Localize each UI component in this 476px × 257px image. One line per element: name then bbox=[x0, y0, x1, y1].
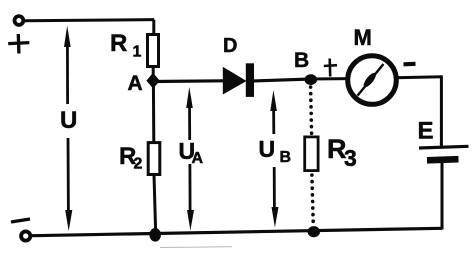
battery E bbox=[419, 146, 469, 160]
label A bbox=[128, 72, 143, 95]
wire top rail bbox=[25, 20, 154, 21]
dotted wire node B to R3 bbox=[311, 87, 312, 134]
svg-text:3: 3 bbox=[344, 145, 357, 171]
minus sign at meter output bbox=[404, 62, 416, 67]
node junction below R2 on bottom rail bbox=[149, 228, 161, 242]
svg-text:U: U bbox=[259, 136, 276, 162]
voltage arrow U bbox=[64, 26, 72, 232]
label D bbox=[223, 35, 237, 57]
svg-text:M: M bbox=[354, 25, 372, 50]
label B bbox=[294, 49, 309, 72]
label UB bbox=[259, 136, 292, 166]
wire R1 top lead bbox=[152, 20, 155, 35]
wire R1 to node A bbox=[152, 67, 155, 82]
minus sign at input terminal bbox=[11, 219, 30, 222]
resistor R3 bbox=[305, 137, 318, 171]
svg-text:B: B bbox=[280, 149, 292, 166]
label R1 bbox=[110, 30, 142, 61]
svg-text:D: D bbox=[223, 35, 237, 57]
wire node A to R2 bbox=[152, 81, 155, 143]
svg-text:B: B bbox=[294, 49, 309, 72]
svg-text:A: A bbox=[192, 150, 204, 167]
svg-text:R: R bbox=[110, 30, 127, 57]
meter M bbox=[348, 56, 397, 105]
svg-text:2: 2 bbox=[134, 156, 143, 173]
wire diode cathode to node B bbox=[252, 79, 311, 81]
wire node B to meter bbox=[310, 77, 349, 80]
label E bbox=[418, 118, 434, 145]
wire meter to right corner bbox=[395, 77, 443, 78]
diode D bbox=[223, 63, 254, 97]
resistor R1 bbox=[148, 35, 159, 67]
plus sign at input terminal bbox=[8, 34, 29, 54]
terminal T2 (negative input) bbox=[21, 231, 30, 240]
wire node A to diode anode bbox=[153, 79, 224, 83]
voltage arrow UA bbox=[186, 87, 194, 231]
faint scan artifact line under bottom rail bbox=[160, 246, 232, 249]
svg-text:U: U bbox=[60, 107, 77, 134]
svg-text:1: 1 bbox=[133, 44, 142, 61]
label R3 bbox=[327, 134, 357, 171]
voltage arrow UB bbox=[270, 90, 278, 228]
wire right rail down to battery bbox=[440, 77, 443, 147]
dotted wire R3 to bottom node bbox=[312, 175, 313, 226]
wire battery to bottom rail bbox=[441, 160, 444, 230]
label R2 bbox=[119, 143, 143, 173]
label M bbox=[354, 25, 372, 50]
node junction below R3 on bottom rail bbox=[308, 226, 320, 237]
label U bbox=[60, 107, 77, 134]
plus sign at meter input bbox=[324, 59, 337, 77]
terminal T1 (positive input) bbox=[15, 16, 24, 25]
label UA bbox=[179, 138, 204, 167]
wire R2 to bottom rail bbox=[154, 175, 156, 235]
svg-text:E: E bbox=[418, 118, 434, 145]
node B junction bbox=[305, 74, 318, 85]
node A junction bbox=[146, 73, 159, 89]
wire bottom rail bbox=[26, 228, 442, 236]
resistor R2 bbox=[148, 143, 160, 175]
svg-text:A: A bbox=[128, 72, 143, 95]
